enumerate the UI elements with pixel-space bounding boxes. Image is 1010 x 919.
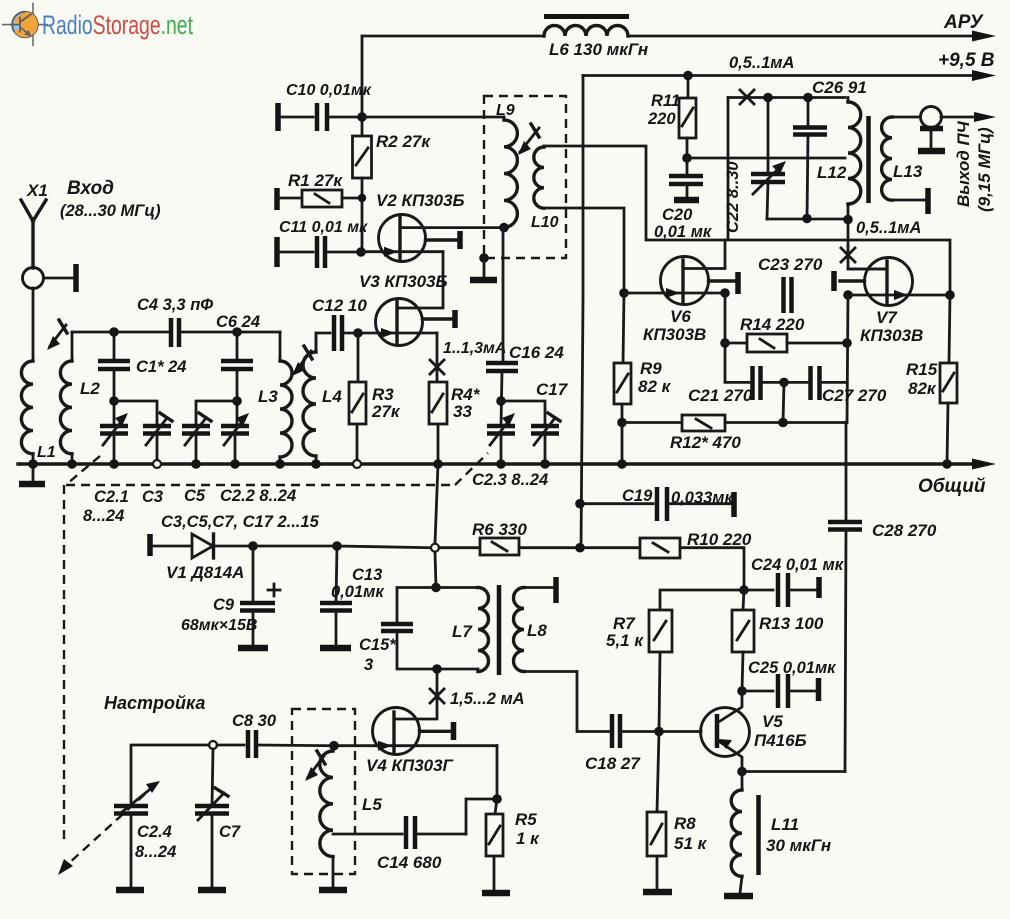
- svg-text:R2 27к: R2 27к: [376, 132, 431, 151]
- resistor R2: [353, 136, 372, 178]
- svg-text:V3 КП303Б: V3 КП303Б: [359, 272, 448, 291]
- variable capacitor C2.2: [221, 413, 249, 464]
- node: V7 source: [843, 290, 853, 300]
- svg-text:0,01мк: 0,01мк: [331, 583, 385, 601]
- wire: gate node down to R3: [357, 333, 360, 382]
- node: C26 bottom: [802, 214, 812, 224]
- wire: down to L1: [32, 288, 35, 361]
- svg-text:68мк×15В: 68мк×15В: [181, 617, 257, 634]
- dashed box L5: [292, 709, 355, 874]
- wire: L7 bottom down through X to V4 drain: [395, 669, 437, 719]
- inductor L2: [60, 332, 72, 464]
- svg-text:82к: 82к: [908, 379, 937, 398]
- svg-text:0,033мк: 0,033мк: [671, 489, 734, 507]
- capacitor C11: [277, 236, 361, 268]
- wire: +9.5V rail: [583, 70, 996, 81]
- svg-text:R14 220: R14 220: [740, 315, 805, 334]
- svg-text:C12 10: C12 10: [312, 296, 367, 315]
- node: R14 left: [720, 338, 730, 348]
- svg-text:C2.1: C2.1: [94, 488, 129, 506]
- transistor V3 КП303Б: [358, 299, 455, 346]
- node: C22 top: [763, 93, 773, 103]
- wire: to C17: [501, 401, 545, 426]
- svg-text:R11: R11: [651, 92, 680, 110]
- svg-text:R15: R15: [906, 360, 938, 379]
- svg-text:V1 Д814А: V1 Д814А: [166, 563, 244, 582]
- logo globe: [10, 12, 38, 38]
- transistor V7 КП303В: [834, 258, 950, 306]
- variable capacitor C2.3: [487, 413, 515, 464]
- shield ground: [470, 253, 497, 280]
- node: L7 top: [431, 583, 441, 593]
- svg-text:C24 0,01 мк: C24 0,01 мк: [751, 556, 845, 574]
- svg-text:L12: L12: [817, 163, 847, 182]
- node: V6 gate: [619, 288, 629, 298]
- capacitor C16: [486, 228, 518, 426]
- node: V5 collector: [737, 686, 747, 696]
- wire: L10 top lead to x646 and down to y240: [544, 146, 950, 295]
- capacitor C21: [725, 366, 784, 400]
- shield box (dashed): [484, 96, 566, 258]
- wire: emitter to C28 branch: [742, 770, 845, 773]
- inductor L12: [848, 98, 861, 220]
- svg-text:V5: V5: [762, 712, 783, 731]
- inductor L6: [544, 17, 629, 37]
- resistor R7: [649, 610, 672, 732]
- node: R5 top: [492, 794, 502, 804]
- capacitor C20: [669, 158, 703, 200]
- node: V6 source: [720, 288, 730, 298]
- inductor L7: [478, 588, 489, 672]
- bus junction dots: [67, 459, 952, 469]
- capacitor C19: [580, 487, 734, 521]
- svg-text:RadioStorage.net: RadioStorage.net: [42, 10, 193, 40]
- svg-text:КП303В: КП303В: [860, 326, 923, 345]
- test point X (0,5..1мА V7): [841, 248, 855, 262]
- node: C6 branch: [232, 327, 242, 337]
- svg-text:V6: V6: [670, 307, 691, 326]
- node: C10/R2 junction: [357, 112, 367, 122]
- svg-text:АРУ: АРУ: [943, 12, 985, 33]
- resistor R13: [732, 590, 754, 691]
- svg-text:L5: L5: [362, 795, 382, 814]
- wire: supply line to C13: [253, 545, 337, 548]
- adjustable core arrow L9/L10: [518, 124, 539, 155]
- svg-text:82 к: 82 к: [638, 377, 672, 396]
- resistor R9: [614, 293, 631, 464]
- wire: AGC rail right part with arrow: [628, 31, 996, 42]
- svg-text:L3: L3: [258, 387, 278, 406]
- wire: L7 top rail: [397, 588, 478, 625]
- variable capacitor C2.4: [114, 781, 160, 890]
- svg-text:R13 100: R13 100: [759, 614, 824, 633]
- svg-text:C16 24: C16 24: [509, 343, 564, 362]
- node: +9.5 feed / R10: [575, 543, 585, 553]
- inductor L4: [303, 333, 316, 464]
- ground: left bus ground: [19, 459, 45, 484]
- svg-text:0,5..1мА: 0,5..1мА: [856, 219, 921, 237]
- svg-text:C25 0,01мк: C25 0,01мк: [748, 659, 837, 677]
- inductor L3: [280, 332, 292, 464]
- svg-text:R10 220: R10 220: [687, 530, 752, 549]
- transformer core L7/L8: [497, 585, 502, 675]
- svg-text:1,5...2 мА: 1,5...2 мА: [450, 690, 525, 708]
- svg-text:L4: L4: [322, 387, 342, 406]
- svg-text:C28 270: C28 270: [872, 521, 937, 540]
- variable capacitor C2.1: [100, 413, 128, 464]
- svg-text:КП303В: КП303В: [643, 325, 706, 344]
- wire: V3 source down through X to R4: [436, 333, 439, 382]
- wire: L1 bottom to bus: [32, 454, 35, 464]
- capacitor C1*: [98, 332, 130, 426]
- svg-text:1 к: 1 к: [516, 829, 540, 848]
- svg-text:С2.3 8..24: С2.3 8..24: [472, 471, 548, 489]
- svg-text:27к: 27к: [371, 402, 401, 421]
- wire: bus down to ring: [435, 464, 438, 543]
- svg-text:L9: L9: [496, 102, 515, 119]
- svg-text:C23 270: C23 270: [758, 255, 823, 274]
- svg-text:0,01 мк: 0,01 мк: [654, 223, 713, 241]
- wire: down to R8: [657, 732, 659, 813]
- wire: tank top rail: [728, 96, 845, 99]
- node: C26 top: [803, 93, 813, 103]
- connector: IF output: [918, 107, 996, 152]
- connector: coax input: [23, 264, 77, 292]
- svg-text:C10 0,01мк: C10 0,01мк: [286, 82, 372, 99]
- node: C16/C17/C2.3: [496, 396, 506, 406]
- svg-text:+9,5 В: +9,5 В: [938, 50, 995, 71]
- svg-text:L8: L8: [527, 621, 547, 640]
- node: C1 branch: [109, 327, 119, 337]
- logo crosshair: [2, 3, 48, 47]
- svg-text:X1: X1: [26, 181, 48, 200]
- inductor L13: [882, 117, 928, 214]
- node: R12 right: [778, 418, 788, 428]
- resistor R14: [725, 334, 847, 352]
- node: R11 bottom: [682, 153, 692, 163]
- test point X (1..1,3мА): [430, 360, 444, 374]
- svg-text:L7: L7: [452, 622, 473, 641]
- svg-text:C14 680: C14 680: [377, 853, 442, 872]
- wire: link C2.1 to C3: [114, 401, 157, 426]
- capacitor C9 (electrolytic): [238, 546, 280, 648]
- wire: mid node down to R12 line: [783, 382, 784, 422]
- resistor R6: [439, 538, 580, 555]
- svg-text:51 к: 51 к: [674, 834, 708, 853]
- resistor R12: [622, 415, 847, 431]
- wire: R2 bottom to gate node: [361, 178, 364, 252]
- svg-text:1..1,3мА: 1..1,3мА: [443, 340, 506, 357]
- svg-text:С3,С5,С7, С17 2...15: С3,С5,С7, С17 2...15: [161, 513, 320, 531]
- svg-text:C13: C13: [352, 566, 382, 584]
- node: R9/R12: [617, 418, 627, 428]
- wire: tank bottom rail: [767, 218, 848, 221]
- node: C9 top: [248, 541, 258, 551]
- svg-text:C6 24: C6 24: [216, 313, 260, 331]
- svg-text:R6 330: R6 330: [472, 520, 527, 539]
- svg-text:L13: L13: [893, 162, 923, 181]
- svg-text:С22 8..30: С22 8..30: [724, 161, 742, 233]
- wire: supply line to R6 node: [337, 546, 431, 548]
- trimmer capacitor C5: [182, 413, 211, 464]
- variable capacitor C22: [751, 98, 786, 220]
- capacitor C6: [221, 332, 253, 426]
- svg-text:C26 91: C26 91: [812, 78, 867, 97]
- wire: R7 branch: [660, 590, 744, 610]
- svg-text:30 мкГн: 30 мкГн: [766, 836, 831, 855]
- wire: ring down to L7 top: [435, 552, 436, 588]
- capacitor C24: [744, 573, 819, 607]
- svg-text:Выход ПЧ: Выход ПЧ: [954, 120, 973, 207]
- svg-text:R12* 470: R12* 470: [670, 433, 741, 452]
- transistor V2 КП303Б: [361, 215, 504, 262]
- node: C13 top: [332, 541, 342, 551]
- inductor L11: [724, 772, 753, 897]
- svg-text:C11 0,01 мк: C11 0,01 мк: [279, 219, 368, 236]
- svg-text:R5: R5: [515, 810, 537, 829]
- wire: link C5 to C6: [196, 401, 237, 426]
- wire: V6 source down: [724, 293, 727, 382]
- node: V5 emitter: [737, 767, 747, 777]
- svg-text:33: 33: [453, 402, 472, 421]
- capacitor C26: [793, 98, 827, 219]
- trimmer capacitor C7: [195, 788, 229, 890]
- node: V7 gate right: [945, 290, 955, 300]
- resistor R5: [482, 799, 510, 893]
- svg-text:C3: C3: [142, 488, 163, 506]
- adjustable core arrow L3/L4: [292, 346, 312, 376]
- core L11: [756, 795, 761, 875]
- node: V2 gate junction: [356, 247, 366, 257]
- node: C19: [575, 499, 585, 509]
- wire: V4 source to R5: [466, 746, 497, 834]
- svg-text:C18 27: C18 27: [585, 754, 641, 773]
- node: C24/R13: [739, 585, 749, 595]
- resistor R15: [940, 295, 957, 464]
- svg-text:C17: C17: [536, 380, 569, 399]
- transformer core L12/L13: [866, 116, 871, 203]
- svg-text:L6 130 мкГн: L6 130 мкГн: [549, 40, 648, 59]
- trimmer capacitor C3: [143, 413, 172, 460]
- svg-text:L2: L2: [80, 379, 100, 398]
- node: V5 base: [654, 727, 664, 737]
- transistor V4 КП303Г: [334, 708, 497, 755]
- svg-text:V4 КП303Г: V4 КП303Г: [366, 756, 455, 775]
- capacitor C8: [217, 730, 334, 758]
- test point X (1,5...2мА): [430, 689, 444, 703]
- capacitor C15*: [381, 624, 478, 669]
- node: V3 gate junction: [353, 328, 363, 338]
- adjustable core arrow L5: [305, 751, 325, 781]
- svg-text:C20: C20: [662, 206, 693, 224]
- resistor R3: [349, 382, 366, 460]
- svg-text:(28...30 МГц): (28...30 МГц): [60, 202, 161, 220]
- svg-text:C1* 24: C1* 24: [136, 358, 186, 376]
- svg-text:C21 270: C21 270: [688, 386, 753, 405]
- wire: V7 source down: [847, 295, 848, 423]
- svg-text:5,1 к: 5,1 к: [606, 631, 644, 650]
- node: L12 bottom: [843, 215, 853, 225]
- node ring: C8/C7 junction: [209, 741, 217, 749]
- wire: V2 source down to V3 drain: [398, 252, 443, 308]
- capacitor C27: [784, 366, 847, 400]
- svg-text:8...24: 8...24: [83, 507, 124, 525]
- transistor V6 КП303В: [624, 240, 738, 305]
- adjustable core arrow L2: [47, 320, 67, 350]
- capacitor C28: [828, 423, 862, 772]
- wire: AGC rail from corner x362 to L6: [362, 35, 544, 38]
- svg-text:C7: C7: [219, 823, 241, 841]
- node: R14 right: [842, 338, 852, 348]
- svg-text:Настройка: Настройка: [104, 693, 205, 713]
- node: C6/C2.2 link: [232, 396, 242, 406]
- svg-text:C5: C5: [184, 487, 206, 505]
- wire: L12 bottom down through X to V7 drain: [848, 219, 886, 269]
- capacitor C18: [612, 714, 701, 748]
- inductor L8: [514, 577, 611, 732]
- inductor L5: [319, 746, 347, 890]
- svg-text:L11: L11: [771, 815, 799, 834]
- wire: tap line to L12: [687, 157, 845, 160]
- svg-text:R1 27к: R1 27к: [288, 171, 343, 190]
- svg-text:R8: R8: [674, 814, 696, 833]
- node: C1/C2.1 link: [109, 396, 119, 406]
- node: L7 bottom: [432, 664, 442, 674]
- svg-text:Вход: Вход: [67, 178, 114, 199]
- inductor L9: [504, 117, 517, 227]
- svg-text:C4 3,3 пФ: C4 3,3 пФ: [137, 296, 213, 314]
- resistor R8: [643, 812, 672, 892]
- svg-text:C9: C9: [213, 596, 235, 614]
- resistor R11: [679, 76, 696, 159]
- wire: L9 top feed line: [362, 116, 504, 119]
- svg-text:C8 30: C8 30: [232, 712, 277, 730]
- svg-text:V2 КП303Б: V2 КП303Б: [376, 191, 465, 210]
- svg-text:C27 270: C27 270: [822, 386, 887, 405]
- wire: +9.5V vertical feed: [581, 76, 583, 549]
- svg-text:C19: C19: [622, 487, 653, 505]
- svg-text:L10: L10: [531, 214, 559, 231]
- wire: L10 bottom to V6 gate node: [544, 208, 624, 293]
- diode V1 Д814А: [150, 534, 253, 558]
- svg-text:8...24: 8...24: [135, 843, 176, 861]
- svg-text:0,5..1мА: 0,5..1мА: [729, 54, 794, 72]
- resistor R10: [580, 538, 744, 590]
- wire: C7 branch: [212, 749, 213, 806]
- node: R11 top: [683, 71, 693, 81]
- svg-text:L1: L1: [37, 444, 56, 461]
- dashed gang link: [58, 453, 488, 875]
- capacitor C13: [320, 546, 352, 648]
- capacitor C23: [784, 277, 792, 313]
- svg-text:П416Б: П416Б: [754, 731, 807, 750]
- inductor L10: [534, 146, 544, 208]
- node: V4 gate / L5 top: [329, 741, 339, 751]
- svg-text:(9,15 МГц): (9,15 МГц): [975, 127, 994, 212]
- wire: tank left branch: [727, 98, 730, 239]
- resistor R4: [429, 382, 447, 464]
- node rings on bus: [153, 460, 361, 468]
- wire: vertical from AGC rail down to C10 node: [361, 36, 364, 136]
- node: C21/C27 mid: [779, 378, 789, 388]
- capacitor C25: [742, 674, 819, 708]
- svg-text:220: 220: [647, 110, 676, 128]
- svg-text:3: 3: [364, 656, 373, 674]
- node: R1/R2 junction: [358, 194, 366, 202]
- svg-text:R9: R9: [640, 359, 662, 378]
- capacitor C4: [171, 318, 280, 347]
- svg-text:C2.2 8..24: C2.2 8..24: [220, 487, 296, 505]
- svg-text:C2.4: C2.4: [137, 823, 172, 841]
- wire: C2.4 branch: [131, 745, 209, 806]
- svg-text:V7: V7: [876, 308, 898, 327]
- capacitor C14: [333, 816, 466, 849]
- svg-text:C15*: C15*: [359, 636, 397, 654]
- wire: input tank top rail: [72, 331, 168, 334]
- node ring: R6/L7 tank: [431, 544, 439, 552]
- test point X (tank top): [740, 90, 754, 104]
- svg-text:Общий: Общий: [918, 476, 986, 497]
- transistor V5 П416Б: [701, 691, 750, 772]
- antenna X1: [21, 200, 46, 268]
- node: L9 bottom / V2 drain: [499, 223, 509, 233]
- trimmer capacitor C17: [531, 413, 560, 464]
- resistor R1: [277, 188, 362, 210]
- inductor L1: [21, 361, 33, 454]
- capacitor C12: [316, 315, 358, 352]
- capacitor C10: [278, 103, 362, 131]
- wire: common bus (Общий): [18, 459, 996, 470]
